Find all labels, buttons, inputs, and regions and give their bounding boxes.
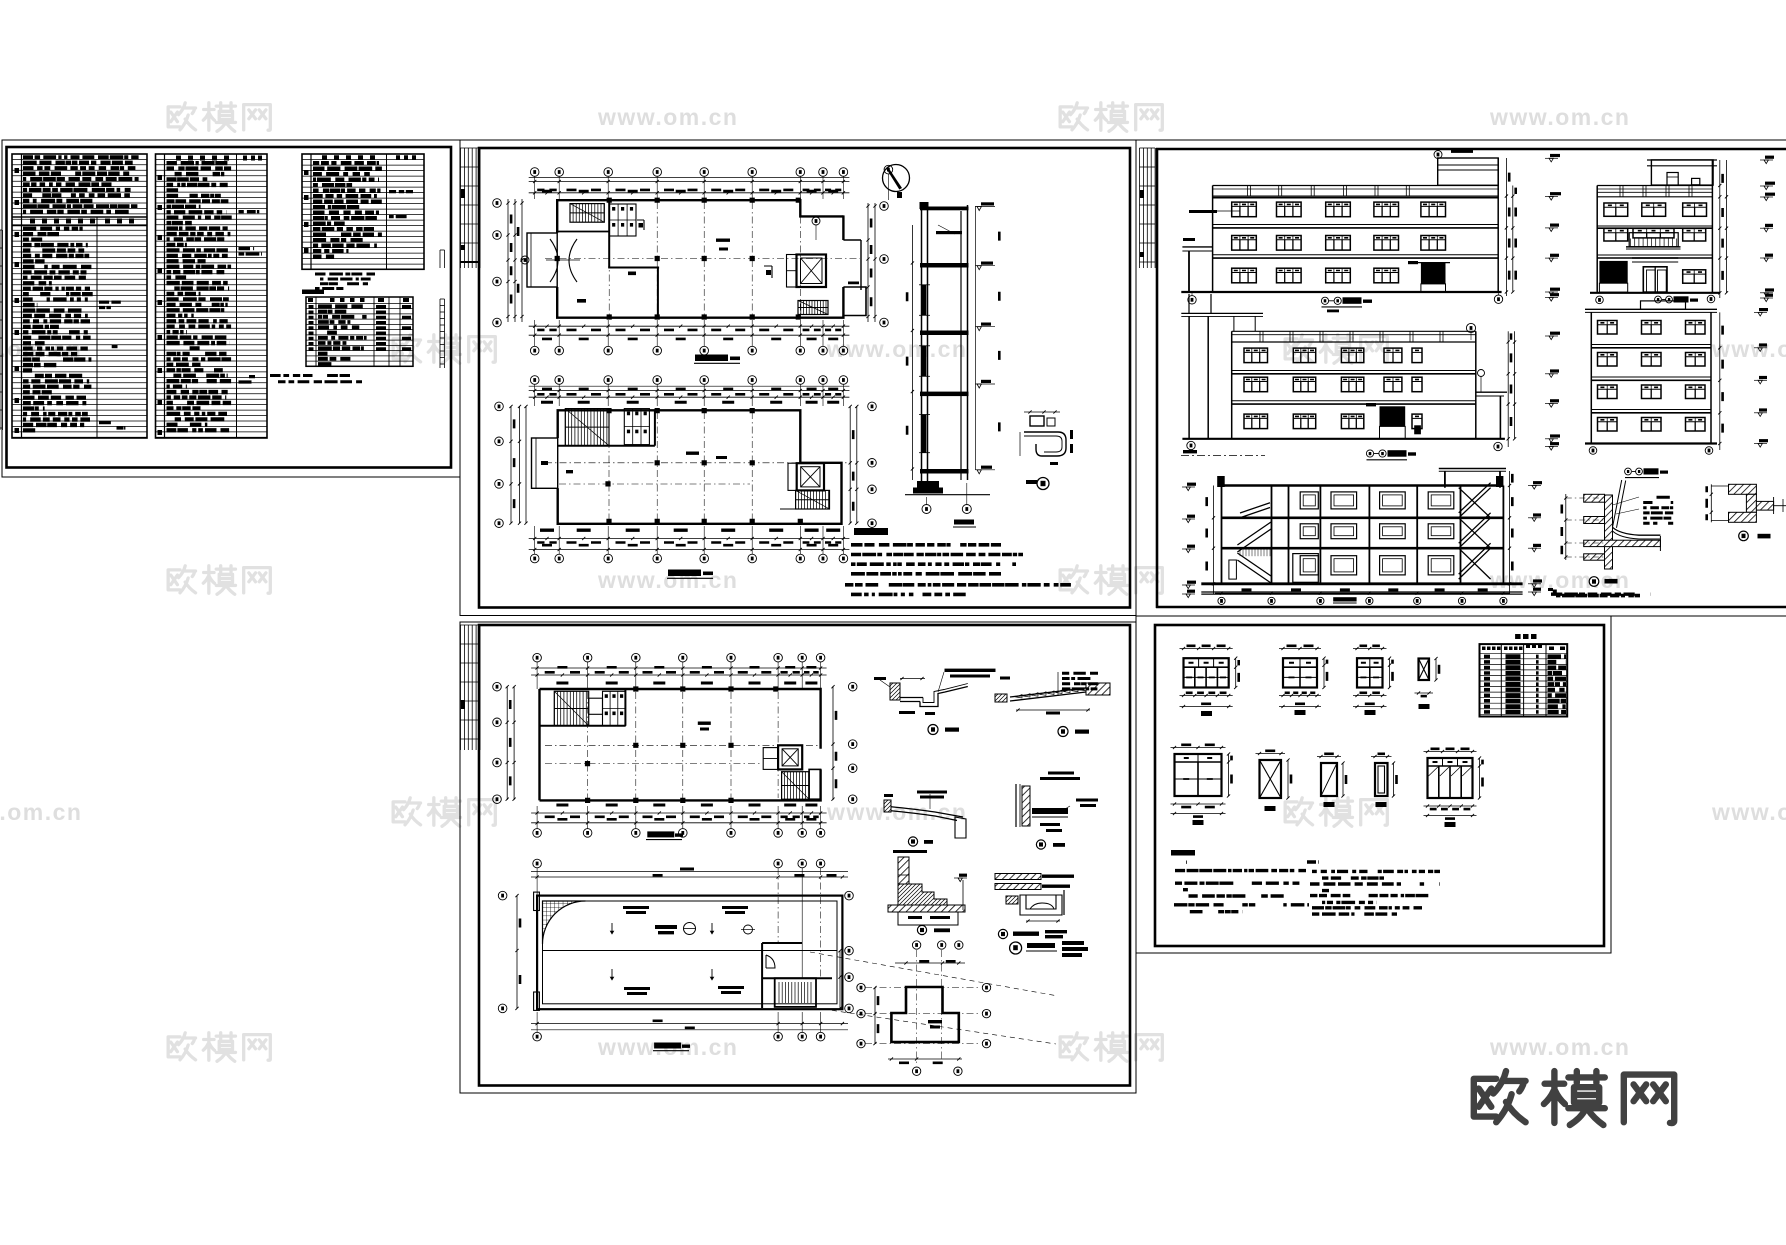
plan1 dashed grid (608, 202, 610, 316)
plan3 staircase NW (554, 691, 588, 726)
S4 detail 3 canopy (884, 806, 963, 821)
elev2 ground (1590, 292, 1720, 294)
plan3 title (647, 831, 674, 837)
elev4 ground (1585, 442, 1717, 444)
detail 7 note (1556, 594, 1640, 598)
plan1 right dims + bubbles (867, 203, 869, 322)
roof title (654, 1043, 681, 1049)
roof right bubbles (845, 891, 854, 900)
S1 table D (material schedule) (306, 297, 413, 366)
roof plan outline (537, 896, 842, 1010)
S5 window C1 (1184, 658, 1229, 687)
S1 table B text (167, 161, 232, 432)
elev2 parapet (1597, 185, 1712, 187)
section right stair (1459, 483, 1491, 579)
S5 window C3 (1419, 659, 1430, 681)
svg-text:www.om.cn: www.om.cn (597, 104, 738, 130)
S5 door M3 (1260, 760, 1282, 798)
plan3 elevator + lobby (778, 745, 802, 769)
plan2 porch (532, 438, 558, 488)
S1 table A header chars (30, 219, 134, 224)
detail 7 label (1589, 577, 1599, 587)
elev3 windows (1244, 348, 1268, 363)
svg-text:www.om.cn: www.om.cn (0, 799, 82, 825)
plan3 bottom dims + bubbles (556, 804, 817, 807)
elev2 row2 + balcony (1604, 228, 1628, 241)
roof fan hatch NW (543, 901, 586, 944)
roof dashed leaders to detail (810, 952, 1058, 996)
elev1 left porch (1182, 246, 1212, 248)
S5 window C2 (1357, 658, 1383, 687)
plan2 top axis bubbles + dims (530, 376, 539, 385)
wall section floor slabs (920, 263, 969, 268)
S4 detail 1 gutter (890, 683, 900, 700)
elev1 windows (1232, 202, 1257, 217)
wall section left dims (911, 225, 913, 480)
svg-text:www.om.cn: www.om.cn (1711, 336, 1786, 362)
elev3 dark door (1380, 406, 1406, 426)
wall section walls (921, 205, 923, 493)
elev3 body (1231, 331, 1233, 439)
svg-text:www.om.cn: www.om.cn (826, 799, 967, 825)
elev4 windows (1598, 321, 1618, 335)
elev2 windows row1 (1604, 203, 1628, 216)
plan3 top axis bubbles + dims (533, 653, 542, 662)
elev2 bubbles + title (1596, 296, 1604, 304)
section floor slabs (1222, 516, 1504, 519)
plan2 dashed grid (608, 412, 610, 522)
plan2 partitions (558, 445, 655, 447)
plan1 entrance porch + revolving door (527, 233, 557, 287)
detail 2 label (1058, 727, 1068, 737)
S2 cornice detail 1 (1030, 416, 1044, 426)
plan2 elevator (797, 463, 824, 490)
S2 plan notes text (845, 543, 1071, 596)
elev2 entrance (1632, 257, 1678, 259)
small plan dashed axes (916, 950, 918, 1066)
plan2 columns (605, 408, 803, 524)
S4 detail WC section (995, 874, 1041, 880)
plan1 left dims + bubbles (507, 199, 509, 322)
elev2 garage dark (1599, 261, 1627, 283)
S1 table C frame (302, 154, 424, 269)
plan1 outer walls (557, 200, 843, 233)
plan3 staircase SE (782, 772, 810, 800)
elev4 bubbles + title (1589, 447, 1597, 455)
S5 door M5 (1375, 763, 1388, 796)
plan1 staircase NW (570, 204, 604, 223)
elev1 right dims (1505, 158, 1507, 296)
elev3 top-right axis bubble (1466, 323, 1475, 332)
S3 wall detail 7 (1605, 495, 1613, 569)
plan1 interior partitions (608, 200, 610, 268)
detail 1 label (928, 725, 938, 735)
section window rects (1300, 492, 1318, 509)
plan1 top axis bubbles + dims (530, 168, 539, 177)
detail 4 label (1036, 840, 1045, 849)
section columns (1221, 486, 1223, 584)
detail 3 label (908, 837, 917, 846)
plan2 staircase SE (796, 490, 830, 509)
S1 table A frame (12, 154, 147, 438)
plan2 toilets (624, 409, 649, 445)
plan2 outer walls (558, 410, 842, 524)
wall section axis bubbles (922, 505, 931, 514)
plan2 title (668, 570, 701, 577)
WC detail title top right (1010, 942, 1022, 954)
section left stair (1237, 503, 1271, 583)
small plan dims (895, 962, 965, 964)
roof stair bulkhead plan (762, 943, 832, 1008)
S1 table B frame (156, 154, 268, 438)
elev3 right canopy (1476, 391, 1507, 393)
elev2 right window (1683, 270, 1706, 283)
S5 door M4 (1321, 763, 1337, 796)
elev1 parapet (1213, 185, 1499, 187)
S1 notes under table D (270, 374, 362, 383)
S5 notes text (1174, 860, 1440, 916)
logo OMW bottom right (1474, 1071, 1526, 1122)
plan3 columns (585, 686, 779, 803)
plan3 outer walls (540, 689, 821, 800)
S1 table A text (23, 155, 139, 214)
plan3 dashed grid (587, 692, 589, 798)
watermark grid (168, 103, 195, 130)
elev2 penthouse (1651, 160, 1713, 185)
north arrow (883, 165, 910, 192)
elev3 bubbles + title (1187, 441, 1195, 449)
S1 notes under table C (315, 273, 375, 291)
S5 window C4 (1283, 658, 1317, 687)
plan3 right dims (832, 686, 834, 800)
S4 detail 4 jamb (1015, 784, 1017, 827)
elev1 dark door (1421, 263, 1446, 284)
svg-text:www.om.cn: www.om.cn (1489, 1034, 1630, 1060)
detail 1 label (1037, 478, 1049, 490)
elev1 title (1321, 297, 1328, 304)
roof plan axis bubbles top (533, 859, 542, 868)
S5 folding door M6 (1428, 758, 1473, 798)
section bottom dims + bubbles (1242, 588, 1488, 591)
WC label (998, 929, 1007, 938)
roof ridge line (543, 950, 838, 952)
section bulkhead top right (1439, 468, 1506, 470)
elev3 left walkway (1188, 294, 1190, 313)
plan2 small labels (566, 452, 727, 474)
elev1 body (1212, 186, 1214, 293)
roof left dims + bubbles (498, 891, 507, 900)
elev2 body (1596, 186, 1598, 293)
elev3 right dims (1507, 331, 1509, 447)
plan3 partitions (540, 725, 626, 727)
elev2 right dims (1719, 160, 1721, 298)
plan1 staircase SE (798, 301, 828, 315)
plan3 labels (698, 722, 711, 725)
elev4 body (1590, 312, 1592, 443)
S5 door M2 (1175, 754, 1222, 796)
elev3 parapet (1232, 330, 1476, 332)
small plan bubbles (912, 941, 920, 949)
plan1 bottom dims + bubbles (529, 325, 850, 327)
S1 table C text (313, 161, 382, 259)
S4 pump room plan detail (891, 987, 958, 1042)
S3 wall detail 8 (1729, 484, 1757, 494)
detail 6 label (917, 925, 926, 934)
svg-text:www.om.cn: www.om.cn (597, 567, 738, 593)
S4 detail 6 footing (898, 857, 909, 904)
elev1 roof stair bulkhead (1438, 158, 1499, 185)
section right dims (1509, 471, 1511, 594)
wall section level marks (974, 206, 976, 470)
svg-text:www.om.cn: www.om.cn (1711, 799, 1786, 825)
plan3 toilets (603, 691, 626, 726)
plan1 title (695, 355, 728, 362)
plan2 staircase NW (565, 409, 609, 446)
elev1 ground (1181, 291, 1501, 293)
elev4 right dims (1719, 312, 1721, 450)
section door ground floor (1293, 554, 1319, 583)
S5 door/window schedule table (1515, 634, 1521, 639)
detail 8 label (1739, 531, 1749, 541)
section roof slab (1222, 484, 1504, 487)
elev1 axis bubbles (1188, 296, 1196, 304)
roof labels + arrows (623, 906, 748, 995)
plan2 bottom dims + bubbles (540, 529, 840, 532)
plan1 small labels (577, 239, 859, 303)
S4 detail 2 ramp (1010, 688, 1086, 701)
plan1 columns (555, 198, 801, 320)
plan2 left dims + bubbles (510, 406, 512, 523)
section note text (1551, 593, 1651, 596)
plan2 right dims + bubbles (849, 406, 851, 523)
plan3 left dims (506, 686, 508, 800)
elev3 ground (1182, 438, 1505, 440)
elev4 canopy top (1585, 308, 1717, 310)
wall section footing (917, 481, 939, 488)
plan1 toilets (609, 204, 636, 236)
plan1 elevator (797, 255, 827, 288)
section left dims (1213, 486, 1215, 595)
S5 notes title (1171, 850, 1195, 856)
svg-text:www.om.cn: www.om.cn (1489, 104, 1630, 130)
sheet frames (2, 139, 1786, 141)
roof bottom dims + bubbles (653, 1020, 663, 1023)
